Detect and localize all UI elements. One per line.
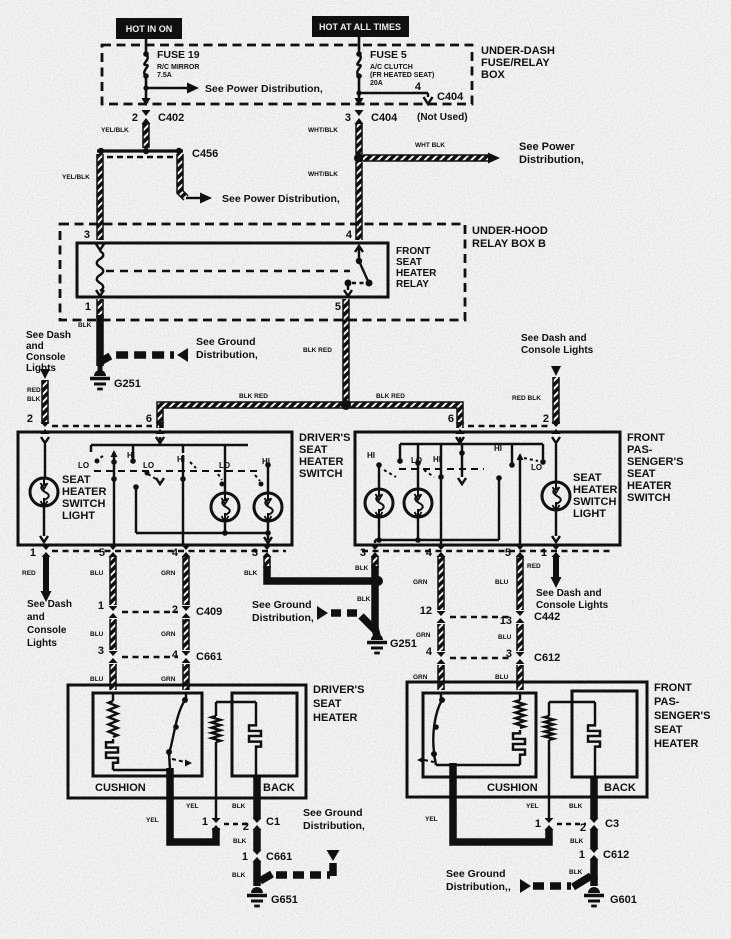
driver cushion heater element (zigzag) — [112, 693, 114, 701]
junction WHT/BLK — [354, 153, 364, 163]
passenger back heater element — [594, 702, 596, 722]
connector C661 (BLK) — [253, 850, 262, 862]
driver lamp bottom bus — [224, 521, 226, 533]
passenger switch top connector dashes — [468, 425, 548, 427]
passenger switch linkage dashed — [399, 468, 484, 470]
driver switch pin2 entry arrow — [41, 437, 49, 443]
front seat heater relay box — [77, 243, 388, 297]
connector C442 — [437, 611, 446, 623]
wire C402 to C456 (striped) — [142, 124, 150, 148]
wire C456 left branch down to relay (striped) — [96, 154, 104, 240]
relay switch — [355, 246, 363, 252]
driver back heater resistor wire — [215, 742, 217, 818]
wire fuse19 to junction — [145, 76, 148, 101]
branch to C404 pin 4 (not used) — [359, 92, 428, 94]
passenger moving contact (pin5) — [517, 453, 524, 460]
connector C456 — [97, 149, 183, 152]
driver indicator lamp HI — [254, 493, 282, 521]
BLK/RED distribution wire y405 (striped) — [160, 405, 460, 428]
wire C1 to C661 — [253, 830, 261, 850]
connector C612 (GRN/BLU) — [437, 652, 446, 664]
driver switch bottom connector dashes — [52, 550, 286, 552]
driver cushion box — [93, 693, 202, 776]
passenger pin2 entry arrow — [552, 437, 560, 443]
driver seat heater switch light lamp — [44, 444, 46, 478]
passenger switch bottom connector dashes — [362, 550, 612, 552]
fuse F19 — [143, 51, 149, 57]
driver switch linkage dashed — [94, 470, 258, 472]
wire C661 to G651 — [253, 862, 261, 886]
driver BLK wire pin3 to junction — [263, 557, 271, 568]
driver switch moving contact 1 — [111, 450, 118, 457]
passenger cushion heater element — [519, 693, 521, 700]
wire junction to relay pin 4 (striped) — [355, 162, 363, 240]
driver BLK exit thick wire — [253, 776, 261, 818]
junction on fuse 19 output — [143, 85, 148, 90]
passenger GRN wire pin4 (striped) — [437, 557, 445, 610]
ground G601 — [590, 878, 598, 886]
connector C661 (BLU/GRN) — [109, 651, 118, 663]
relay pin5 wire to junction (striped) — [342, 299, 350, 402]
driver YEL exit thick wire — [170, 768, 216, 842]
fuse F5 — [356, 51, 362, 57]
see power distribution arrow (fuse 19) — [146, 87, 188, 89]
junction dot BLK/RED — [341, 400, 351, 410]
driver back box — [232, 693, 297, 776]
connector C404 pin 3 — [355, 110, 364, 124]
wire C404 to junction (striped) — [355, 124, 363, 154]
HOT IN ON label box — [116, 18, 182, 39]
passenger YEL exit thick wire — [453, 763, 549, 842]
driver's seat heater box — [68, 685, 306, 798]
branch see power distribution right (striped) — [363, 154, 488, 162]
ground distribution run (lower right) — [520, 879, 531, 893]
wire RED BLK passenger pin2 (striped) — [552, 377, 560, 424]
passenger indicator lamp LO — [415, 460, 421, 466]
wire from HOT AT ALL TIMES to fuse 5 — [358, 37, 361, 53]
junction fuse5 branch — [356, 90, 361, 95]
ground distribution run (lower left) — [260, 874, 272, 881]
passenger cushion box — [423, 693, 536, 777]
pin arrow at box edge (fuse 5) — [355, 98, 364, 106]
wire C456 right branch (striped) — [180, 154, 186, 198]
driver bottom pin bowties — [42, 545, 51, 557]
driver cushion thermal switch — [185, 693, 187, 698]
wire C612 to G601 — [590, 860, 598, 880]
driver back heater element — [255, 702, 257, 722]
driver GRN wire pin4 (striped) — [182, 557, 190, 605]
wire from HOT IN ON to fuse 19 — [145, 39, 148, 53]
driver switch section drops — [90, 445, 92, 452]
passenger cushion thermal switch — [440, 693, 442, 698]
see power distribution arrow (C456) — [186, 197, 202, 199]
HOT AT ALL TIMES label box — [312, 16, 409, 37]
passenger pin6 entry arrow — [456, 437, 464, 443]
wire RED/BLK to pin 2 driver switch (striped) — [41, 380, 49, 424]
passenger lamp bottom bus — [378, 517, 380, 540]
ground G651 — [251, 887, 263, 893]
passenger lamp linkage dashes — [384, 470, 396, 477]
arrow from dash lights — [40, 369, 50, 379]
driver switch pin6 entry arrow — [156, 437, 164, 443]
relay coil — [96, 244, 104, 250]
passenger BLU wire pin5 (striped) — [516, 557, 524, 610]
passenger BLK wire pin3 — [371, 557, 379, 568]
wire C3 to C612 — [590, 830, 598, 848]
connector C409 — [109, 606, 118, 618]
driver's seat heater switch box — [18, 432, 292, 545]
driver BLU wire pin5 (striped) — [109, 557, 117, 605]
under-hood relay box B (dashed) — [60, 224, 465, 320]
ground G251 (relay) — [98, 366, 103, 374]
front passenger's seat heater box — [407, 682, 647, 797]
relay mechanical link (dashed) — [106, 270, 350, 272]
passenger switch drops — [399, 444, 401, 459]
front passenger's seat heater switch box — [355, 432, 620, 545]
passenger seat heater switch light lamp — [542, 482, 570, 510]
driver thermal switch dashed arrow — [172, 759, 185, 762]
connector C612 (BLK) — [590, 848, 599, 860]
driver cushion thermostat element — [106, 739, 118, 766]
connector C402 — [142, 110, 151, 124]
driver switch bus — [159, 437, 161, 445]
passenger thermal switch dashed arrow — [424, 760, 434, 762]
passenger back heater resistor wire — [548, 740, 550, 818]
under-dash fuse/relay box (dashed) — [102, 45, 472, 104]
driver indicator lamp LO — [211, 493, 239, 521]
junction dot BLK grounds — [373, 576, 383, 586]
passenger switch bus — [459, 437, 461, 444]
arrow down to passenger pin 2 — [551, 366, 561, 376]
driver switch top connector dashes — [52, 425, 152, 427]
relay pin1 stub (striped) — [96, 299, 104, 318]
passenger BLK exit thick wire — [590, 777, 598, 818]
ground distribution dashed run (upper left) — [100, 355, 174, 362]
ground G251 (switch) — [375, 628, 377, 636]
passenger back box — [572, 691, 637, 777]
driver pin3 drop — [267, 533, 269, 540]
wire fuse5 down — [358, 76, 361, 101]
pin arrow at box edge (fuse 19) — [142, 98, 151, 106]
